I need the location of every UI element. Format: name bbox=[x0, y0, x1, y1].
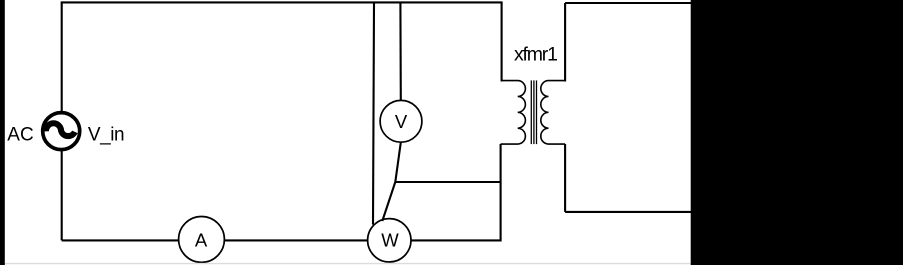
ammeter A bbox=[179, 217, 225, 263]
AC source V_in bbox=[43, 113, 80, 150]
svg-text:V_in: V_in bbox=[88, 124, 124, 145]
wire: right loop top horizontal bbox=[565, 2, 691, 4]
transformer xfmr1 core bbox=[531, 80, 536, 144]
transformer xfmr1 secondary winding bbox=[541, 81, 565, 144]
wire: horizontal branch from junction to primary return bbox=[395, 181, 501, 183]
faint screen boundary line at bottom bbox=[0, 263, 691, 265]
wire: primary return vertical down to bottom wire bbox=[500, 144, 502, 240]
wire: vertical tap from top wire down to wattmeter (left of voltmeter) bbox=[373, 2, 374, 224]
wire: secondary bottom vertical down to right loop bottom bbox=[564, 144, 566, 212]
black region covering right side bbox=[691, 0, 903, 265]
voltmeter V bbox=[380, 100, 422, 142]
svg-text:V: V bbox=[395, 111, 408, 132]
wire: right loop bottom horizontal bbox=[565, 211, 691, 213]
svg-text:xfmr1: xfmr1 bbox=[514, 44, 557, 66]
svg-text:A: A bbox=[195, 230, 208, 251]
svg-text:AC: AC bbox=[7, 124, 33, 145]
wire: top horizontal of primary loop bbox=[61, 1, 503, 3]
wire: left vertical from top wire down to AC source bbox=[61, 2, 63, 112]
wire: voltmeter bottom to junction to wattmeter top bbox=[382, 142, 401, 221]
svg-text:W: W bbox=[381, 229, 399, 250]
wire: vertical tap from top wire down to voltmeter bbox=[399, 2, 401, 100]
transformer xfmr1 primary winding bbox=[501, 81, 526, 144]
wire: bottom horizontal from left corner to ammeter bbox=[62, 239, 179, 241]
wire: bottom horizontal from wattmeter to primary return bbox=[411, 239, 502, 241]
wire: vertical feed from top wire down to transformer primary bbox=[501, 2, 503, 81]
black bar at left screen edge bbox=[0, 0, 5, 265]
wire: secondary top vertical up to right loop top bbox=[564, 3, 566, 82]
wire: bottom horizontal from ammeter to wattmeter bbox=[225, 239, 368, 241]
wire: left vertical from AC source down to bottom wire bbox=[61, 150, 63, 241]
wattmeter W bbox=[368, 219, 411, 262]
